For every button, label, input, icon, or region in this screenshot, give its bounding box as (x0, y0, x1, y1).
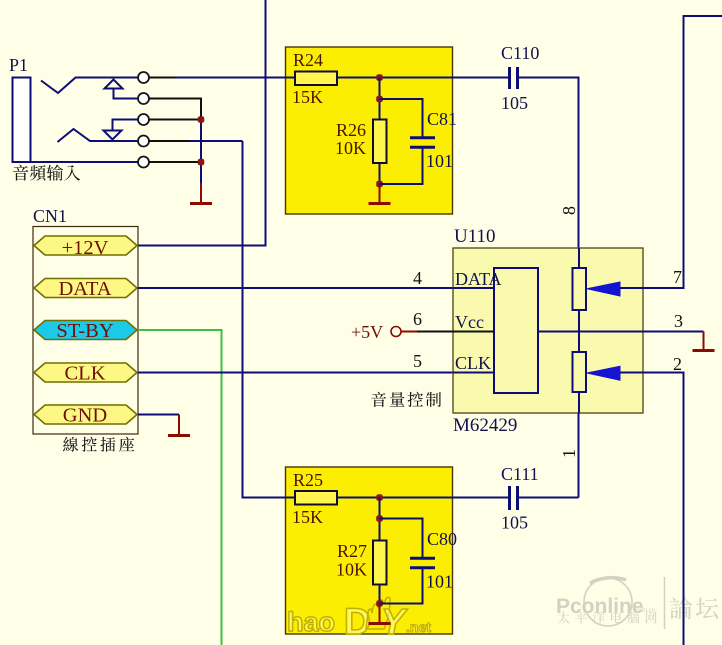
svg-text:101: 101 (426, 151, 453, 171)
pin number 3 (674, 311, 683, 331)
wire R25 left (285, 497, 295, 499)
pin circle 5 (138, 157, 149, 168)
pin number 8 (559, 206, 579, 215)
wire gnd net vertical (200, 120, 202, 185)
ground pin3 (693, 332, 715, 351)
capacitor C110 (510, 67, 518, 89)
svg-text:7: 7 (673, 267, 682, 287)
capacitor C81 (410, 138, 435, 147)
pin line DATA internal (453, 287, 494, 289)
svg-text:8: 8 (559, 206, 579, 215)
junction dot R27 bottom (376, 600, 383, 607)
wire node to R26 (379, 78, 381, 120)
svg-text:105: 105 (501, 513, 528, 533)
capacitor C80 (410, 558, 435, 567)
label C81 (427, 109, 457, 129)
junction dot jack 2 (198, 159, 205, 166)
svg-text:C80: C80 (427, 529, 457, 549)
wire +5V stub red (401, 331, 417, 333)
wire pin3 (643, 331, 704, 333)
label DATA pin (58, 278, 111, 300)
wire C110 to pin8 (519, 78, 579, 249)
jack tip contact R (58, 129, 139, 142)
connector CN1 outline (33, 227, 138, 435)
IC U110 label (454, 226, 496, 247)
connector CN1 label (33, 206, 67, 226)
jack ring arrow (104, 131, 122, 140)
wire Vcc internal (538, 331, 643, 333)
label 10K top (335, 138, 366, 158)
label +5V (351, 322, 383, 342)
filter box bottom (286, 467, 453, 634)
wire R24 left (285, 77, 295, 79)
svg-text:+12V: +12V (62, 237, 109, 259)
label 101 top (426, 151, 453, 171)
svg-text:Vcc: Vcc (455, 312, 484, 332)
pin line Vcc internal (453, 331, 494, 333)
ground CN1 (168, 415, 190, 436)
junction dot R26 top (376, 96, 383, 103)
CN1 pin +12V flag (34, 236, 137, 255)
pin number 2 (673, 354, 682, 374)
svg-text:DATA: DATA (58, 278, 111, 300)
wire C81 top lead (380, 99, 423, 137)
pin name Vcc (455, 312, 484, 332)
svg-text:15K: 15K (292, 507, 323, 527)
label remote socket (63, 437, 134, 452)
IC part number M62429 (453, 415, 517, 436)
svg-text:3: 3 (674, 311, 683, 331)
pin circle 2 (138, 93, 149, 104)
wiper arrow top (587, 282, 620, 296)
wire pot chain top (578, 248, 580, 268)
wire pin2 (620, 373, 684, 645)
pot resistor top (573, 268, 587, 310)
svg-text:R27: R27 (337, 541, 367, 561)
pin name DATA (455, 269, 502, 289)
wire pin1 to R24 (149, 77, 295, 79)
wire C80 top lead (380, 519, 423, 558)
svg-text:101: 101 (426, 572, 453, 592)
svg-text:M62429: M62429 (453, 415, 517, 436)
wire pin7 (620, 16, 722, 288)
svg-text:C111: C111 (501, 464, 539, 484)
label 101 bottom (426, 572, 453, 592)
label 15K bottom (292, 507, 323, 527)
label C110 (501, 43, 539, 63)
pin number 7 (673, 267, 682, 287)
jack tip arrow (105, 80, 123, 89)
label audio input (13, 165, 80, 181)
label 105 top (501, 93, 528, 113)
svg-text:6: 6 (413, 309, 422, 329)
wire GND stub (138, 414, 179, 416)
svg-text:15K: 15K (292, 87, 323, 107)
ground R26 (369, 184, 391, 204)
svg-text:GND: GND (63, 405, 107, 427)
jack tip contact L (41, 78, 138, 94)
svg-text:.net: .net (406, 619, 431, 635)
svg-text:4: 4 (413, 268, 422, 288)
svg-text:10K: 10K (335, 138, 366, 158)
label volume control (371, 392, 441, 407)
svg-text:10K: 10K (336, 560, 367, 580)
wire jack sleeve to pin5 (31, 161, 139, 163)
watermark haodiy (287, 597, 431, 642)
wire ST-BY green (138, 330, 222, 645)
filter box top (286, 47, 453, 214)
CN1 pin CLK flag (34, 363, 137, 382)
svg-text:R26: R26 (336, 120, 366, 140)
ground jack (190, 183, 212, 204)
junction dot R25 node (376, 494, 383, 501)
junction dot R24 node (376, 74, 383, 81)
wire C81 bottom lead (380, 149, 423, 185)
wiper arrow bottom (587, 366, 620, 380)
resistor R25 (295, 491, 337, 505)
label GND pin (63, 405, 107, 427)
watermark pconline (556, 577, 718, 629)
wire CLK (138, 372, 494, 374)
wire R25 to C111 (337, 497, 510, 499)
svg-text:C81: C81 (427, 109, 457, 129)
pin circle 3 (138, 114, 149, 125)
label C80 (427, 529, 457, 549)
label 10K bottom (336, 560, 367, 580)
connector P1 label (9, 55, 28, 75)
pin name CLK (455, 353, 491, 373)
svg-text:C110: C110 (501, 43, 539, 63)
junction dot R26 bottom (376, 181, 383, 188)
wire R26 bottom (379, 163, 381, 184)
+5V terminal circle (391, 327, 401, 337)
svg-text:R24: R24 (293, 50, 323, 70)
svg-text:ST-BY: ST-BY (56, 320, 114, 342)
IC U110 body (453, 248, 643, 413)
wire +12V vertical (138, 0, 266, 246)
pin line CLK internal (453, 372, 494, 374)
svg-text:hao: hao (287, 607, 335, 637)
wire C111 to pin1 (519, 497, 579, 499)
wire pot chain bottom (578, 392, 580, 413)
pin number 1 (559, 449, 579, 458)
wire pin4 vertical to R25 (243, 141, 296, 498)
wire pin5 stub (149, 161, 201, 163)
label R27 (337, 541, 367, 561)
CN1 pin DATA flag (34, 279, 137, 298)
svg-text:U110: U110 (454, 226, 496, 247)
label R26 (336, 120, 366, 140)
svg-text:DATA: DATA (455, 269, 502, 289)
connector P1 jack body (13, 78, 31, 163)
svg-text:2: 2 (673, 354, 682, 374)
svg-text:P1: P1 (9, 55, 28, 75)
wire tip arrow to pin2 (114, 89, 139, 99)
label R24 (293, 50, 323, 70)
wire node to R27 (379, 498, 381, 541)
label 105 bottom (501, 513, 528, 533)
svg-text:Y: Y (381, 601, 408, 642)
wire pin3 stub (149, 119, 201, 121)
wire ring arrow to pin3 (113, 120, 139, 132)
wire pin1 (578, 413, 580, 498)
CN1 pin ST-BY flag (34, 321, 137, 340)
svg-text:CLK: CLK (455, 353, 491, 373)
pin circle 1 (138, 72, 149, 83)
wire DATA (138, 287, 494, 289)
junction dot jack 1 (198, 116, 205, 123)
wire C80 bottom lead (380, 569, 423, 604)
CN1 pin GND flag (34, 405, 137, 424)
svg-text:CLK: CLK (65, 363, 106, 385)
wire pin2 stub (149, 99, 201, 120)
svg-text:1: 1 (559, 449, 579, 458)
label CLK pin (65, 363, 106, 385)
resistor R26 (373, 120, 387, 164)
pin circle 4 (138, 136, 149, 147)
label 15K top (292, 87, 323, 107)
label R25 (293, 470, 323, 490)
pin number 4 (413, 268, 422, 288)
svg-text:5: 5 (413, 351, 422, 371)
resistor R27 (373, 541, 387, 585)
label ST-BY (56, 320, 114, 342)
label +12V (62, 237, 109, 259)
pin number 5 (413, 351, 422, 371)
wire pin4 stub (149, 140, 243, 142)
wire pot chain mid (578, 310, 580, 352)
label C111 (501, 464, 539, 484)
IC inner block (494, 268, 538, 393)
ground R27 (369, 604, 391, 624)
wire R24 to C110 (337, 77, 510, 79)
svg-text:R25: R25 (293, 470, 323, 490)
wire +5V to Vcc (417, 331, 494, 333)
svg-text:+5V: +5V (351, 322, 383, 342)
capacitor C111 (510, 486, 518, 510)
junction dot R27 top (376, 515, 383, 522)
svg-text:CN1: CN1 (33, 206, 67, 226)
pot resistor bottom (573, 352, 587, 392)
svg-text:105: 105 (501, 93, 528, 113)
resistor R24 (295, 72, 337, 86)
wire R27 bottom (379, 585, 381, 604)
pin number 6 (413, 309, 422, 329)
